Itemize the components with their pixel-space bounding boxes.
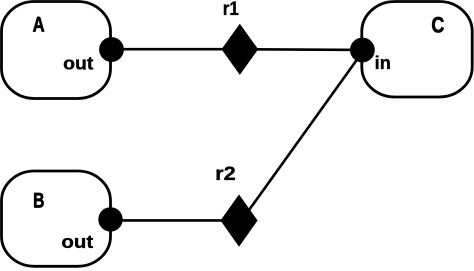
svg-text:r2: r2	[215, 164, 236, 185]
svg-text:r1: r1	[223, 0, 239, 20]
svg-text:C: C	[431, 12, 444, 37]
svg-text:A: A	[33, 13, 45, 37]
svg-text:in: in	[375, 53, 391, 73]
svg-text:out: out	[61, 232, 93, 252]
svg-text:B: B	[33, 190, 44, 213]
svg-text:out: out	[63, 53, 93, 73]
